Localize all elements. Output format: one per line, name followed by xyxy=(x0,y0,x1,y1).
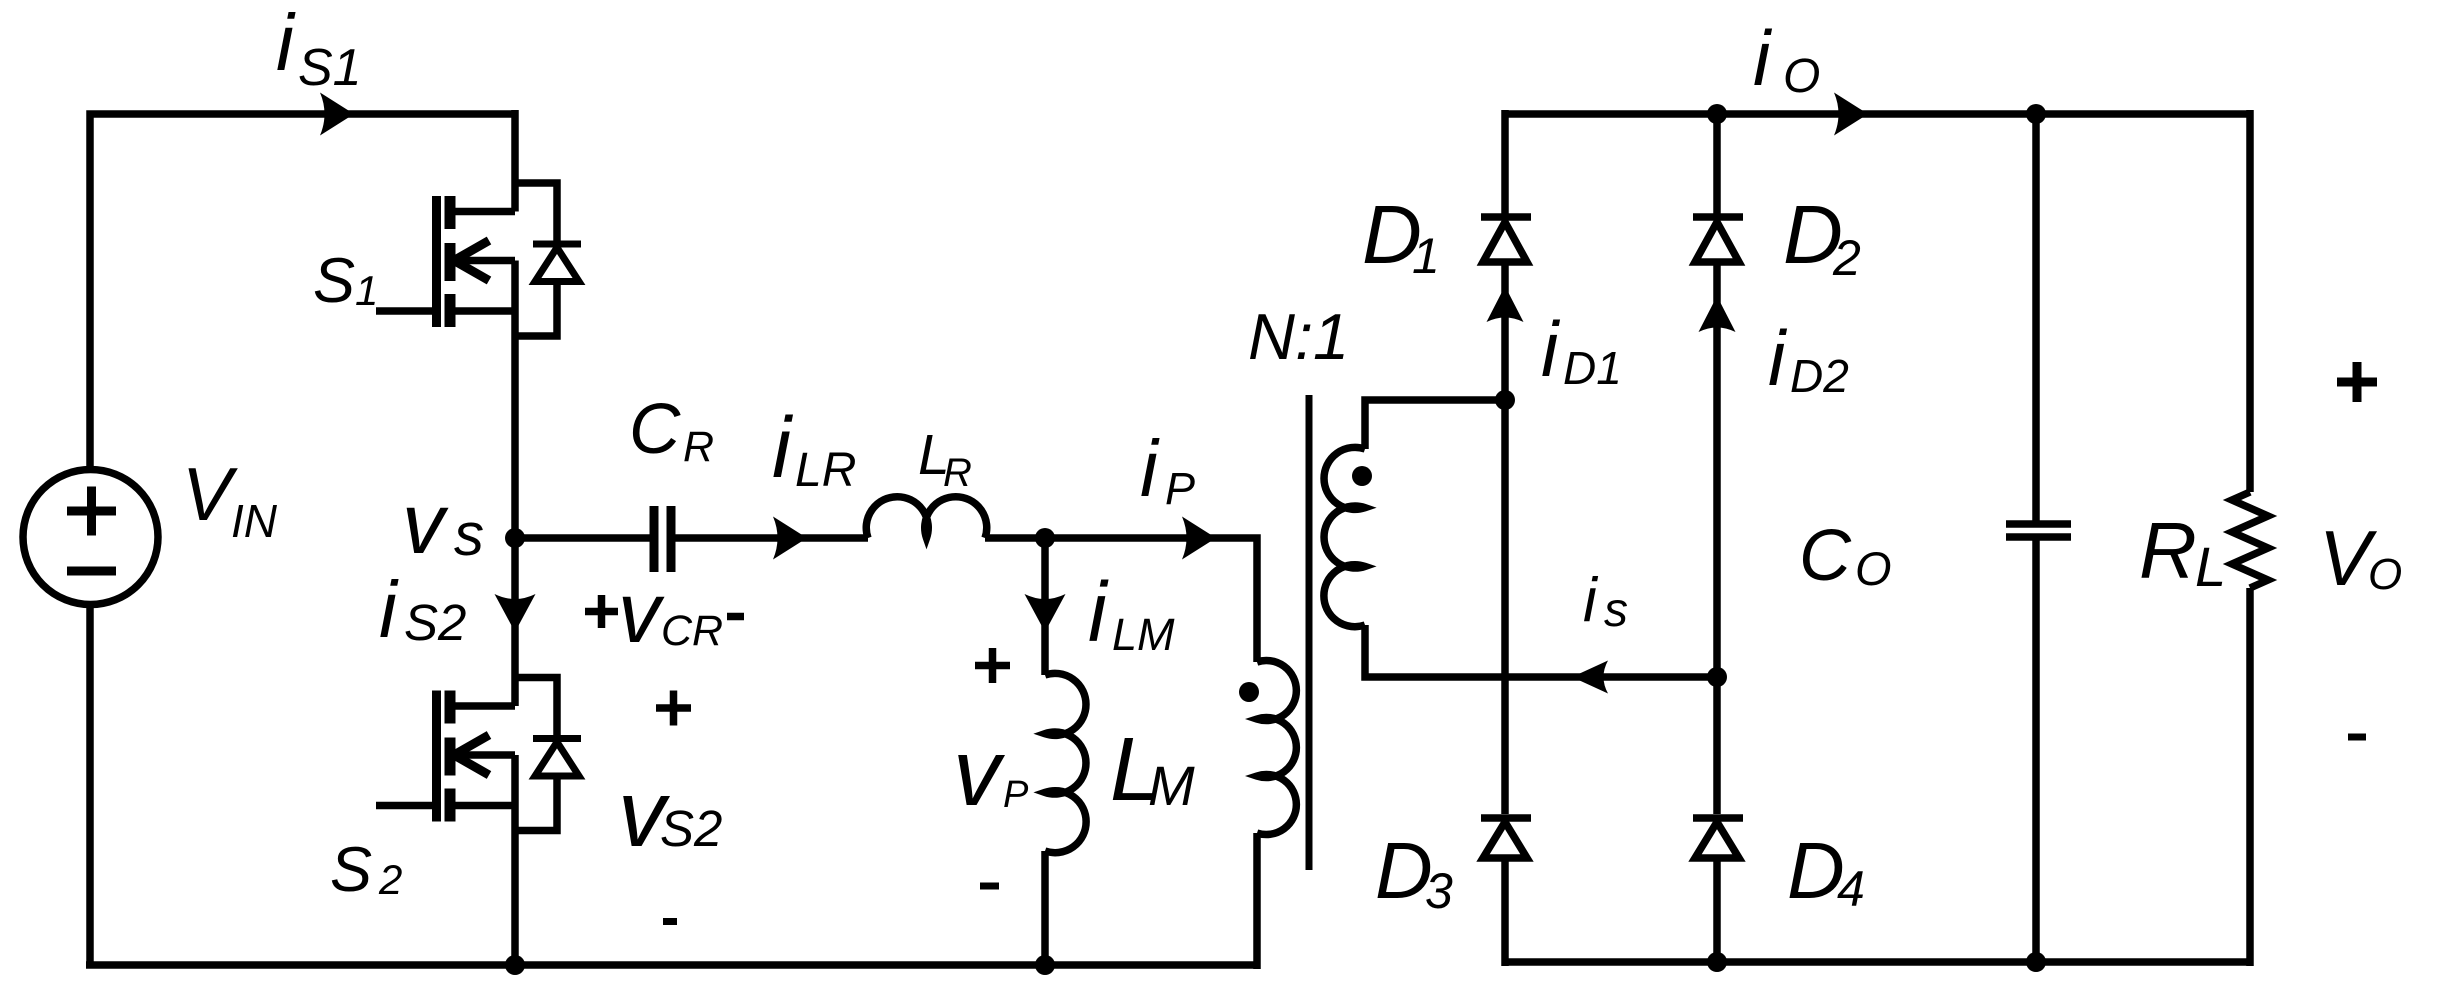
label iD2 xyxy=(1768,314,1849,402)
diode D4 triangle xyxy=(1695,822,1739,858)
wire LM to bottom rail xyxy=(1041,851,1049,965)
transistor S2 (MOSFET with body diode) xyxy=(376,678,581,831)
voltage source minus symbol xyxy=(67,567,116,576)
transformer core xyxy=(1306,395,1313,870)
inductor LM xyxy=(1045,673,1086,852)
svg-text:O: O xyxy=(1783,50,1820,103)
capacitor CO xyxy=(2006,524,2071,537)
wire CR to LR xyxy=(675,534,868,542)
capacitor CR xyxy=(654,506,671,572)
label vP xyxy=(953,720,1029,826)
wire D4 anode to bottom rail xyxy=(1713,858,1721,962)
svg-text:R: R xyxy=(683,423,714,471)
label S2 xyxy=(330,835,402,905)
node dot bottom rail at LM xyxy=(1035,955,1055,975)
current arrow iS1 xyxy=(320,93,354,136)
diode D3 triangle xyxy=(1483,822,1527,858)
svg-text:P: P xyxy=(1165,463,1195,514)
wire primary bottom to bottom rail xyxy=(1253,833,1261,969)
label +vCR- xyxy=(618,566,723,661)
svg-text:i: i xyxy=(1140,424,1160,513)
S1 body arrow xyxy=(454,241,489,281)
node at LM branch xyxy=(1035,528,1055,548)
wire D2 column upper xyxy=(1713,114,1721,217)
resistor RL zigzag xyxy=(2232,492,2268,588)
diode D1 cathode bar xyxy=(1481,213,1531,221)
transformer secondary polarity dot xyxy=(1352,466,1372,486)
plus sign of vS2 xyxy=(656,691,691,726)
wire half-bridge vertical between S1 and S2 xyxy=(511,261,519,707)
wire D3 anode to bottom rail xyxy=(1501,858,1509,966)
svg-text:S2: S2 xyxy=(660,800,722,857)
svg-text:R: R xyxy=(943,451,972,495)
svg-text:i: i xyxy=(1583,566,1599,635)
svg-text:S2: S2 xyxy=(404,594,466,651)
label iD1 xyxy=(1541,305,1622,394)
svg-text:CR: CR xyxy=(661,607,723,655)
wire RL column upper xyxy=(2246,110,2254,492)
svg-text:L: L xyxy=(2195,535,2226,598)
svg-text:N:1: N:1 xyxy=(1248,300,1349,373)
voltage source plus symbol xyxy=(67,487,116,536)
label iLM xyxy=(1088,565,1175,660)
label S1 xyxy=(313,246,378,316)
wire secondary bottom to D2 column (is wire) xyxy=(1365,625,1717,677)
node vs xyxy=(505,528,525,548)
diode D1 triangle xyxy=(1483,222,1527,262)
svg-text:s: s xyxy=(454,501,484,568)
current arrow iP xyxy=(1182,517,1216,560)
label RL xyxy=(2139,506,2226,598)
svg-text:i: i xyxy=(1088,565,1109,659)
wire primary-side bottom rail xyxy=(86,961,1257,969)
current arrow iO xyxy=(1834,93,1868,136)
wire input loop: top rail and left vertical upper segment xyxy=(90,114,515,470)
transformer primary polarity dot xyxy=(1239,682,1259,702)
svg-text:2: 2 xyxy=(378,856,402,903)
svg-text:C: C xyxy=(629,390,681,469)
svg-text:2: 2 xyxy=(1832,230,1861,286)
svg-text:v: v xyxy=(402,477,449,572)
diode D2 cathode bar xyxy=(1693,213,1743,221)
wire D1/D3 column middle xyxy=(1501,400,1509,814)
minus sign of VO xyxy=(2348,734,2366,741)
S2 gate bar xyxy=(432,691,441,822)
inductor LR xyxy=(866,497,987,538)
label D2 xyxy=(1783,188,1861,286)
current arrow iLR xyxy=(773,517,807,560)
wire D2/D4 column middle xyxy=(1713,677,1721,814)
svg-text:LM: LM xyxy=(1112,609,1175,660)
S2 body diode branch xyxy=(515,678,557,831)
minus sign of vCR xyxy=(727,613,744,621)
label N:1 xyxy=(1248,300,1349,373)
node dot top rail at CO column xyxy=(2026,104,2046,124)
node dot top rail at D2 column xyxy=(1707,104,1727,124)
svg-text:D1: D1 xyxy=(1563,342,1622,394)
svg-text:i: i xyxy=(1768,314,1788,402)
label iP xyxy=(1140,424,1195,514)
svg-text:S: S xyxy=(313,246,355,316)
wire LR to transformer primary corner xyxy=(985,538,1257,662)
S2 source lead xyxy=(450,802,515,810)
wire output top rail xyxy=(1505,110,2250,118)
plus sign of VO xyxy=(2337,362,2377,402)
minus sign of vS2 xyxy=(663,918,677,925)
label iS2 xyxy=(379,565,466,654)
S1 gate lead xyxy=(376,307,436,315)
minus sign of vP xyxy=(980,883,999,890)
transformer primary winding xyxy=(1257,661,1296,835)
node dot bottom rail at D4 column xyxy=(1707,952,1727,972)
wire RL column lower xyxy=(2246,588,2254,966)
svg-text:R: R xyxy=(2139,506,2197,595)
S2 gate lead xyxy=(376,802,436,810)
diode D3 cathode bar xyxy=(1481,814,1531,822)
wire secondary top to D1 column xyxy=(1365,400,1505,449)
svg-text:1: 1 xyxy=(355,267,378,314)
svg-text:v: v xyxy=(618,566,665,661)
svg-text:S1: S1 xyxy=(298,39,362,97)
plus sign of vCR xyxy=(585,595,618,628)
label CO xyxy=(1799,516,1892,596)
diode D2 triangle xyxy=(1695,222,1739,262)
svg-text:LR: LR xyxy=(795,444,856,497)
label iO xyxy=(1753,14,1820,103)
S2 channel segments xyxy=(445,691,456,822)
S2 body lead xyxy=(454,751,515,759)
svg-text:V: V xyxy=(182,452,238,536)
wire D1 anode to node xyxy=(1501,262,1509,400)
svg-text:1: 1 xyxy=(1412,228,1440,284)
node dot is wire at D2 column xyxy=(1707,667,1727,687)
current arrow iLM xyxy=(1025,594,1066,632)
S1 drain lead xyxy=(450,208,515,216)
svg-text:S: S xyxy=(330,835,372,905)
label D4 xyxy=(1787,826,1865,917)
svg-text:i: i xyxy=(772,400,794,496)
S1 body lead xyxy=(454,257,515,265)
label LR xyxy=(918,423,972,495)
svg-text:O: O xyxy=(1855,542,1892,595)
svg-text:i: i xyxy=(276,0,296,87)
svg-text:D2: D2 xyxy=(1790,350,1849,402)
svg-text:i: i xyxy=(379,565,399,654)
label is xyxy=(1583,566,1628,637)
svg-text:i: i xyxy=(1541,305,1561,393)
label iLR xyxy=(772,400,856,497)
S2 body diode cathode bar xyxy=(533,735,581,742)
wire output bottom rail xyxy=(1505,958,2250,966)
S2 body diode triangle xyxy=(535,742,579,776)
wire D2 anode to is node xyxy=(1713,262,1721,677)
svg-text:v: v xyxy=(953,720,1006,826)
S1 body diode cathode bar xyxy=(533,241,581,248)
svg-text:IN: IN xyxy=(231,495,278,547)
current arrow iS2 xyxy=(495,594,536,632)
wire LM branch upper xyxy=(1041,538,1049,675)
transistor S1 (MOSFET with body diode) xyxy=(376,183,581,336)
S2 body arrow xyxy=(454,735,489,775)
plus sign of vP xyxy=(975,648,1010,683)
current arrow is xyxy=(1572,661,1608,694)
transformer secondary winding xyxy=(1324,447,1365,626)
wire vs node to CR xyxy=(515,534,650,542)
wire CO column lower xyxy=(2032,540,2040,962)
svg-text:4: 4 xyxy=(1837,861,1865,917)
S2 drain lead xyxy=(450,702,515,710)
node dot bottom rail at CO column xyxy=(2026,952,2046,972)
S1 gate bar xyxy=(432,196,441,327)
label vs xyxy=(402,477,484,572)
S1 body diode branch xyxy=(515,183,557,336)
svg-text:s: s xyxy=(1604,584,1628,637)
current arrow iD1 xyxy=(1487,286,1524,322)
wire CO column upper xyxy=(2032,114,2040,521)
svg-text:O: O xyxy=(2368,550,2402,599)
svg-text:i: i xyxy=(1753,14,1773,102)
label VO xyxy=(2319,514,2402,602)
label D3 xyxy=(1375,826,1453,919)
S1 body diode triangle xyxy=(535,248,579,282)
wire D1 column upper xyxy=(1501,110,1509,217)
S1 source lead xyxy=(450,307,515,315)
svg-text:3: 3 xyxy=(1425,863,1453,919)
wire left vertical lower segment xyxy=(86,604,94,965)
label D1 xyxy=(1362,188,1440,284)
diode D4 cathode bar xyxy=(1693,814,1743,822)
svg-text:P: P xyxy=(1003,774,1029,816)
svg-text:C: C xyxy=(1799,516,1852,596)
voltage source VIN xyxy=(23,470,158,605)
node dot secondary top at D1 column xyxy=(1495,390,1515,410)
node dot bottom rail at half-bridge xyxy=(505,955,525,975)
label CR xyxy=(629,390,714,471)
label vS2 xyxy=(618,761,722,867)
wire S2 source to bottom rail xyxy=(511,755,519,965)
current arrow iD2 xyxy=(1699,296,1736,332)
label LM xyxy=(1110,720,1195,820)
svg-text:M: M xyxy=(1148,754,1195,817)
label VIN xyxy=(182,452,278,547)
S1 channel segments xyxy=(445,196,456,327)
label iS1 xyxy=(276,0,362,97)
wire S1 drain vertical xyxy=(511,110,519,212)
